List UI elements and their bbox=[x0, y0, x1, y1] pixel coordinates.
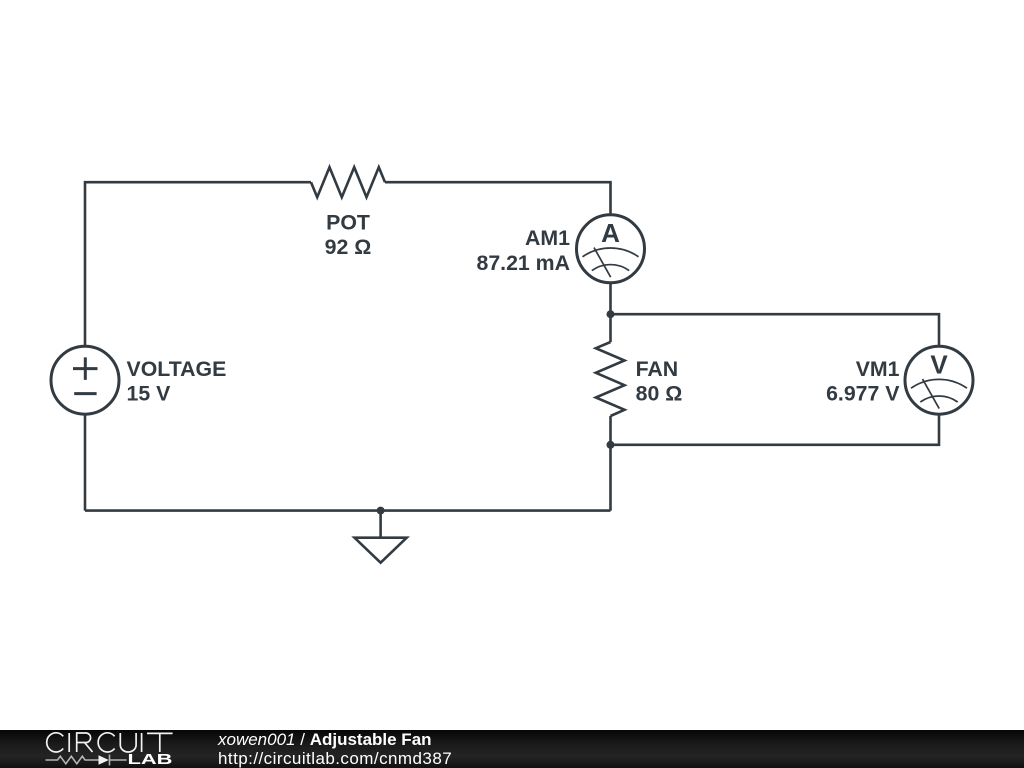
wire voltmeter bottom to node bbox=[611, 414, 940, 445]
svg-text:6.977 V: 6.977 V bbox=[826, 382, 900, 406]
logo letter I bbox=[68, 733, 70, 752]
ground triangle bbox=[355, 538, 407, 563]
node junction dot at ammeter/FAN top bbox=[607, 310, 615, 318]
voltage source plus sign bbox=[73, 357, 98, 393]
ground stub bbox=[379, 511, 382, 538]
wire top rail right + down to ammeter bbox=[385, 182, 611, 215]
voltmeter VM1 meter marks bbox=[911, 379, 967, 409]
svg-text:V: V bbox=[930, 350, 948, 380]
wire node to FAN top bbox=[609, 314, 612, 342]
ammeter AM1 meter marks bbox=[583, 248, 639, 278]
logo letter T bbox=[147, 733, 173, 752]
wire top rail left + left vertical bbox=[85, 182, 311, 346]
wire node down to bottom rail bbox=[609, 445, 612, 511]
svg-text:LAB: LAB bbox=[128, 751, 173, 768]
svg-text:A: A bbox=[601, 218, 620, 248]
wire bottom rail bbox=[85, 509, 611, 512]
resistor POT bbox=[311, 167, 385, 197]
wire FAN bottom to node bbox=[609, 416, 612, 445]
svg-text:87.21 mA: 87.21 mA bbox=[476, 251, 570, 275]
svg-text:VOLTAGE: VOLTAGE bbox=[127, 357, 227, 381]
labels bbox=[127, 210, 901, 405]
node junction dot at FAN bottom bbox=[607, 441, 615, 449]
svg-text:15 V: 15 V bbox=[127, 382, 172, 406]
logo letter R bbox=[77, 733, 93, 752]
logo wire with resistor bbox=[46, 756, 127, 764]
wire ammeter to node bbox=[609, 283, 612, 314]
svg-text:VM1: VM1 bbox=[856, 357, 900, 381]
CircuitLab logo bbox=[0, 730, 190, 768]
wire node to voltmeter top bbox=[611, 314, 940, 346]
node junction dot at ground bbox=[377, 507, 385, 515]
resistor FAN bbox=[596, 342, 625, 416]
svg-text:80 Ω: 80 Ω bbox=[636, 382, 683, 406]
logo letter I (2nd) bbox=[141, 733, 143, 752]
footer bar bbox=[0, 730, 1024, 768]
svg-text:FAN: FAN bbox=[636, 357, 679, 381]
voltage source VOLTAGE circle bbox=[51, 346, 119, 414]
voltage source minus sign bbox=[74, 392, 96, 395]
logo letter U bbox=[120, 733, 136, 752]
voltmeter VM1 circle bbox=[905, 346, 973, 414]
svg-text:POT: POT bbox=[326, 210, 370, 234]
svg-text:AM1: AM1 bbox=[525, 226, 570, 250]
ammeter AM1 circle bbox=[577, 215, 645, 283]
logo letter C bbox=[47, 733, 63, 752]
logo letter C (2nd) bbox=[98, 733, 114, 752]
logo diode triangle bbox=[99, 755, 109, 765]
wire voltage source bottom bbox=[84, 414, 87, 510]
svg-text:92 Ω: 92 Ω bbox=[325, 235, 372, 259]
logo diode bar bbox=[109, 755, 111, 766]
footer text bbox=[218, 730, 452, 768]
